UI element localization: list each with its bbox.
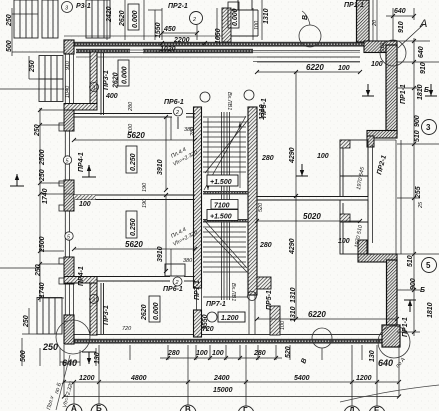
svg-text:Вх.ЛВ1: Вх.ЛВ1 [230,283,236,301]
svg-text:640: 640 [394,8,406,15]
left margin line y268 [0,267,40,269]
interior dim line 5620 lower [74,248,195,250]
balcony left bottom [37,298,62,335]
cropped balcony top 3 [86,0,110,38]
svg-text:2620: 2620 [141,304,148,321]
section arrow a lower-left inner [82,352,96,364]
svg-text:1740: 1740 [39,282,46,298]
left wall pier y257-284 [64,257,74,284]
svg-text:100: 100 [128,123,134,133]
svg-text:100: 100 [338,65,350,72]
elevation box 0.250 lower room [126,211,137,238]
elevation box 0.000 top-left [128,4,139,30]
balcony left middle [39,56,63,102]
svg-text:1550: 1550 [155,22,162,38]
bottom witness lines from wall [63,345,65,397]
interior wall left y278 [74,277,195,282]
interior dim line 5620 upper [74,139,195,141]
svg-text:ПР1-1: ПР1-1 [402,317,409,337]
svg-text:250: 250 [39,169,46,182]
svg-text:4290: 4290 [289,147,296,164]
svg-text:1020: 1020 [160,46,176,53]
svg-text:ПР4-1: ПР4-1 [78,266,85,286]
left wall circle 5 upper + PR4-1 [63,156,71,164]
bottom wall dense band [64,339,397,344]
svg-text:640: 640 [62,358,77,368]
label PR3-1 lower with circle [90,295,99,304]
svg-text:720: 720 [122,326,132,332]
interior vertical dim 4290 [295,72,297,319]
left wall pier bottom y315 [64,315,74,344]
svg-text:3910: 3910 [157,246,164,262]
svg-text:25: 25 [418,201,424,209]
right shaft lower rect [340,200,368,254]
grid bubble D bottom [344,406,360,411]
svg-text:2500: 2500 [39,236,46,253]
witness line x171 upper [170,117,172,140]
svg-text:1200: 1200 [356,375,372,382]
stair top small circle mark left [200,92,210,102]
svg-text:5: 5 [426,261,431,270]
leader to A label [398,24,424,48]
top wall band B window gap [130,48,143,53]
svg-text:3: 3 [426,123,431,132]
svg-text:Д: Д [349,406,355,411]
svg-text:130: 130 [94,352,101,364]
stair direction diagonal upper [204,116,248,190]
top wall band A [64,42,364,47]
svg-text:510: 510 [414,130,421,142]
stair bottom landing lines [203,272,248,297]
inner parallel lines below top wall right part [257,57,360,62]
detail circle bottom-left corner [56,320,90,354]
svg-text:2500: 2500 [39,149,46,166]
stair left wall lower piece [194,310,202,337]
left wall window lines y54-104 [65,54,73,104]
elevation box 0.250 upper room [126,146,137,173]
svg-text:ПР3-1: ПР3-1 [103,70,110,90]
svg-text:ПР5-1: ПР5-1 [266,290,273,310]
section arrow b right upper inner [362,84,374,96]
right witness lines [397,40,430,42]
left wall window lines y284-315 [65,284,73,315]
svg-text:ПР7-1: ПР7-1 [206,301,226,308]
interior dim line 5020 [257,220,360,222]
thin lines right of top-right vertical wall [372,0,374,41]
svg-text:0.000: 0.000 [153,302,160,320]
bottom dim line chain row1 [64,381,399,383]
svg-text:500: 500 [6,40,13,52]
svg-text:100: 100 [280,320,286,330]
svg-text:250: 250 [29,60,36,73]
detail circle bottom-right corner [378,326,410,358]
grid bubble B bottom [91,404,107,411]
svg-text:2620: 2620 [113,72,120,89]
curved line bottom right margin [340,385,439,402]
svg-text:3910: 3910 [157,159,164,175]
svg-text:280: 280 [261,155,274,162]
svg-text:Вх.ЛВ1: Вх.ЛВ1 [226,92,232,110]
svg-text:500: 500 [20,350,27,362]
right recessed wall lower corner [358,240,367,256]
entry elevation circle [207,312,217,322]
left witness lines [40,109,64,111]
svg-text:400: 400 [105,93,118,100]
svg-text:250: 250 [6,14,13,27]
svg-text:А: А [419,18,427,30]
svg-text:+1.500: +1.500 [210,179,232,186]
L-wall bottom-left horizontal [64,277,97,284]
stair bottom circle mark [248,292,257,301]
door jamb wall bottom middle [270,306,280,335]
small hatch stub right shaft bottom [340,214,350,222]
L-wall top-left horizontal [64,104,97,111]
section circle V top [299,25,321,47]
L-wall bottom-left vertical [90,277,97,335]
svg-text:510: 510 [380,42,386,52]
svg-text:Е: Е [374,406,380,411]
svg-text:1040: 1040 [65,85,71,98]
left top dim bits [11,8,13,56]
svg-text:0.250: 0.250 [130,218,137,236]
balcony edge thin lines right [374,140,401,254]
svg-text:1810: 1810 [417,84,424,100]
interior wall left y115 [74,114,195,118]
detail circle top-right corner [380,40,406,66]
door leaf at stair entry top [177,117,179,129]
leader line V top [302,11,310,25]
svg-text:1310: 1310 [263,8,270,24]
svg-text:+1.500: +1.500 [210,214,232,221]
svg-text:В: В [185,405,191,411]
right chain ticks [412,39,416,334]
svg-text:4290: 4290 [289,238,296,255]
svg-text:Г: Г [243,406,248,411]
hatched stub at entry [222,8,231,42]
svg-text:ПР7-1: ПР7-1 [194,280,201,300]
svg-text:380: 380 [184,127,194,133]
stair right wall [248,107,257,295]
shaft box next to door bottom [165,264,185,276]
left wall tabs2 [59,258,64,264]
bottom-right corner block [382,325,400,347]
top small dim lines [148,9,162,11]
bubble PR2-1 top with circle [190,12,203,25]
top wall thin line above [64,35,255,37]
party wall hatch stub [74,195,96,200]
svg-text:280: 280 [167,350,180,357]
svg-text:100: 100 [317,153,329,160]
left wall circle 5 lower + PR4-1 [65,232,73,240]
svg-text:0.000: 0.000 [132,10,139,28]
hatched stub right of stair wall bottom [257,277,271,289]
left dim chain vertical line [39,108,41,302]
interior dim line 6220 upper right [257,71,360,73]
section arrow B right upper [425,84,437,96]
svg-text:ПР6-1: ПР6-1 [163,286,183,293]
elevation box +1.500 upper [207,175,238,186]
left wall tab y123 [59,123,64,131]
stair left wall [194,107,202,288]
svg-text:280: 280 [128,101,134,112]
top left room box 0.000 [118,60,129,86]
elevation box +1.500 lower [207,210,238,221]
left wall pier y104-131 [64,104,74,131]
partition bottom-left x102 [101,283,104,334]
label PR3-1 upper with circle [90,83,99,92]
elevation box 0.000 top-middle [228,2,239,28]
section arrow b mid right [296,164,308,176]
svg-text:450: 450 [163,26,176,33]
section arrow a upper-left [10,174,24,186]
svg-text:ПР1-1: ПР1-1 [400,84,407,104]
left wall window lines y131-180 [65,131,69,180]
svg-text:520: 520 [258,202,264,212]
left wall pier y180-211 [64,180,74,211]
svg-text:В: В [302,15,309,20]
bottom dim ticks [62,380,401,399]
bottom extension lines to bubbles [73,382,75,404]
svg-text:5020: 5020 [303,212,321,221]
svg-text:520: 520 [285,346,292,358]
svg-text:910: 910 [65,60,71,70]
stair top small circle mark right [244,90,254,100]
stair right wall lower thin part [249,295,255,334]
bottom wall inner thin line [64,334,397,336]
left wall window lines y211-257 [65,211,69,257]
svg-text:2400: 2400 [213,375,230,382]
svg-text:280: 280 [253,350,266,357]
svg-text:ПР1-1: ПР1-1 [344,2,364,9]
stair stringers vertical [222,112,230,300]
svg-text:100: 100 [371,61,383,68]
stair mid landing band lower [203,219,248,223]
svg-text:640: 640 [378,358,393,368]
svg-text:1740: 1740 [42,188,49,204]
top wall right inner lines [253,51,360,62]
top margin witness lines [106,0,108,40]
right shaft upper rect [340,140,368,197]
svg-text:2200: 2200 [173,37,190,44]
svg-text:6220: 6220 [308,310,326,319]
cropped bay top-left 2 [42,0,58,38]
grid bubble A bottom [66,404,82,411]
top-right corner jog [364,41,397,53]
left wall pier top corner [64,40,74,54]
small dim row above chain [166,356,278,360]
svg-text:380: 380 [183,258,193,264]
svg-text:255: 255 [415,186,422,199]
svg-text:100: 100 [212,350,224,357]
right outer chain line [413,38,415,336]
wall top-right vertical to image top [357,0,370,42]
svg-text:130: 130 [369,350,376,362]
right recessed wall corner [367,136,374,147]
right wall lower [387,260,398,336]
svg-text:1200: 1200 [79,375,95,382]
left chain ticks [38,108,42,300]
svg-text:Б: Б [420,287,425,294]
right apartment wall y198 [257,197,368,201]
grid bubble 3 right [422,120,437,135]
svg-text:510: 510 [407,255,414,267]
svg-text:0.000: 0.000 [232,8,239,26]
landing text 7100 [211,200,238,210]
svg-text:190: 190 [142,182,148,192]
svg-text:1310: 1310 [290,306,297,322]
svg-text:1810: 1810 [427,302,434,318]
svg-text:4800: 4800 [130,375,147,382]
svg-text:20: 20 [372,19,378,27]
interior vertical dim 3910 lower [165,195,167,271]
svg-text:2: 2 [175,110,179,116]
svg-text:910: 910 [398,21,405,33]
witness line x171 lower [170,249,172,276]
interior vertical dim 3910 upper [165,117,167,190]
entry elevation box 7200 [218,312,245,322]
interior dim line 6220 lower right [257,318,397,320]
svg-text:2: 2 [192,17,196,23]
svg-text:250: 250 [35,264,42,277]
svg-text:0.250: 0.250 [130,153,137,171]
svg-text:250: 250 [42,342,58,352]
svg-text:5620: 5620 [125,240,143,249]
svg-text:1310: 1310 [290,287,297,303]
small hatch stub right shaft top [340,140,350,148]
svg-text:2: 2 [175,280,179,286]
svg-text:100: 100 [254,20,260,30]
top wall band B [76,49,253,53]
svg-text:280: 280 [259,242,272,249]
section arrow B right lower [404,300,416,312]
grid bubble V bottom [180,405,196,411]
partition top-left x102 [101,53,104,115]
diagonal note line bottom left [56,355,70,410]
svg-text:0.000: 0.000 [122,66,129,84]
svg-text:Б: Б [424,87,429,94]
svg-text:2420: 2420 [106,6,113,23]
section arrow a mid-left inner [82,165,96,177]
svg-text:Р3-1: Р3-1 [76,3,91,10]
bottom dim line 15000 row [64,396,399,398]
right jog wall at y133 [367,131,397,139]
left bottom dim bits [28,308,30,334]
svg-text:910: 910 [420,62,427,74]
top right corner dims [386,15,414,17]
stair walk line vertical with arrow [206,118,241,190]
left margin long line y89 [0,88,64,90]
svg-text:250: 250 [34,124,41,137]
svg-text:1.200: 1.200 [221,315,239,322]
cropped entry box top middle [231,0,258,36]
svg-text:100: 100 [338,238,350,245]
svg-text:1310: 1310 [259,104,266,120]
grid bubble E bottom [369,406,385,411]
svg-text:Б: Б [96,404,102,411]
right wall upper [386,45,397,134]
svg-text:100: 100 [79,201,91,208]
grid bubble G bottom [238,406,254,411]
stair direction diagonal lower [205,221,247,272]
left wall tabs [59,181,64,186]
interior party wall y197 [74,195,195,200]
right recessed window thin wall [368,145,373,243]
section circle V bottom [312,328,332,348]
svg-text:15000: 15000 [213,387,233,394]
svg-text:6220: 6220 [306,63,324,72]
svg-text:5400: 5400 [294,375,310,382]
svg-text:ПР3-1: ПР3-1 [103,305,110,325]
svg-text:100: 100 [196,350,208,357]
right jog wall at y255 [358,254,397,262]
svg-text:ПР2-1: ПР2-1 [168,3,188,10]
cropped balcony top-left 1 [14,0,38,38]
svg-text:250: 250 [23,315,30,328]
svg-text:2620: 2620 [119,10,126,27]
svg-text:ПР4-1: ПР4-1 [78,152,85,172]
upper flight treads [203,117,246,172]
svg-text:1050: 1050 [215,28,222,44]
svg-text:1550: 1550 [202,314,209,330]
svg-text:190: 190 [142,198,148,208]
svg-text:А: А [71,404,77,411]
svg-text:900: 900 [414,115,421,127]
svg-text:7100: 7100 [214,203,230,210]
grid bubble 5 right [422,258,437,273]
svg-text:640: 640 [418,46,425,58]
svg-text:900: 900 [410,278,417,290]
stair mid landing band upper [203,191,248,195]
stair left wall door jamb lines [197,288,202,310]
lower flight treads [203,222,246,267]
top wall inner thin line left [76,56,253,58]
svg-text:ПР6-1: ПР6-1 [164,99,184,106]
L-wall top-left vertical [90,52,97,110]
